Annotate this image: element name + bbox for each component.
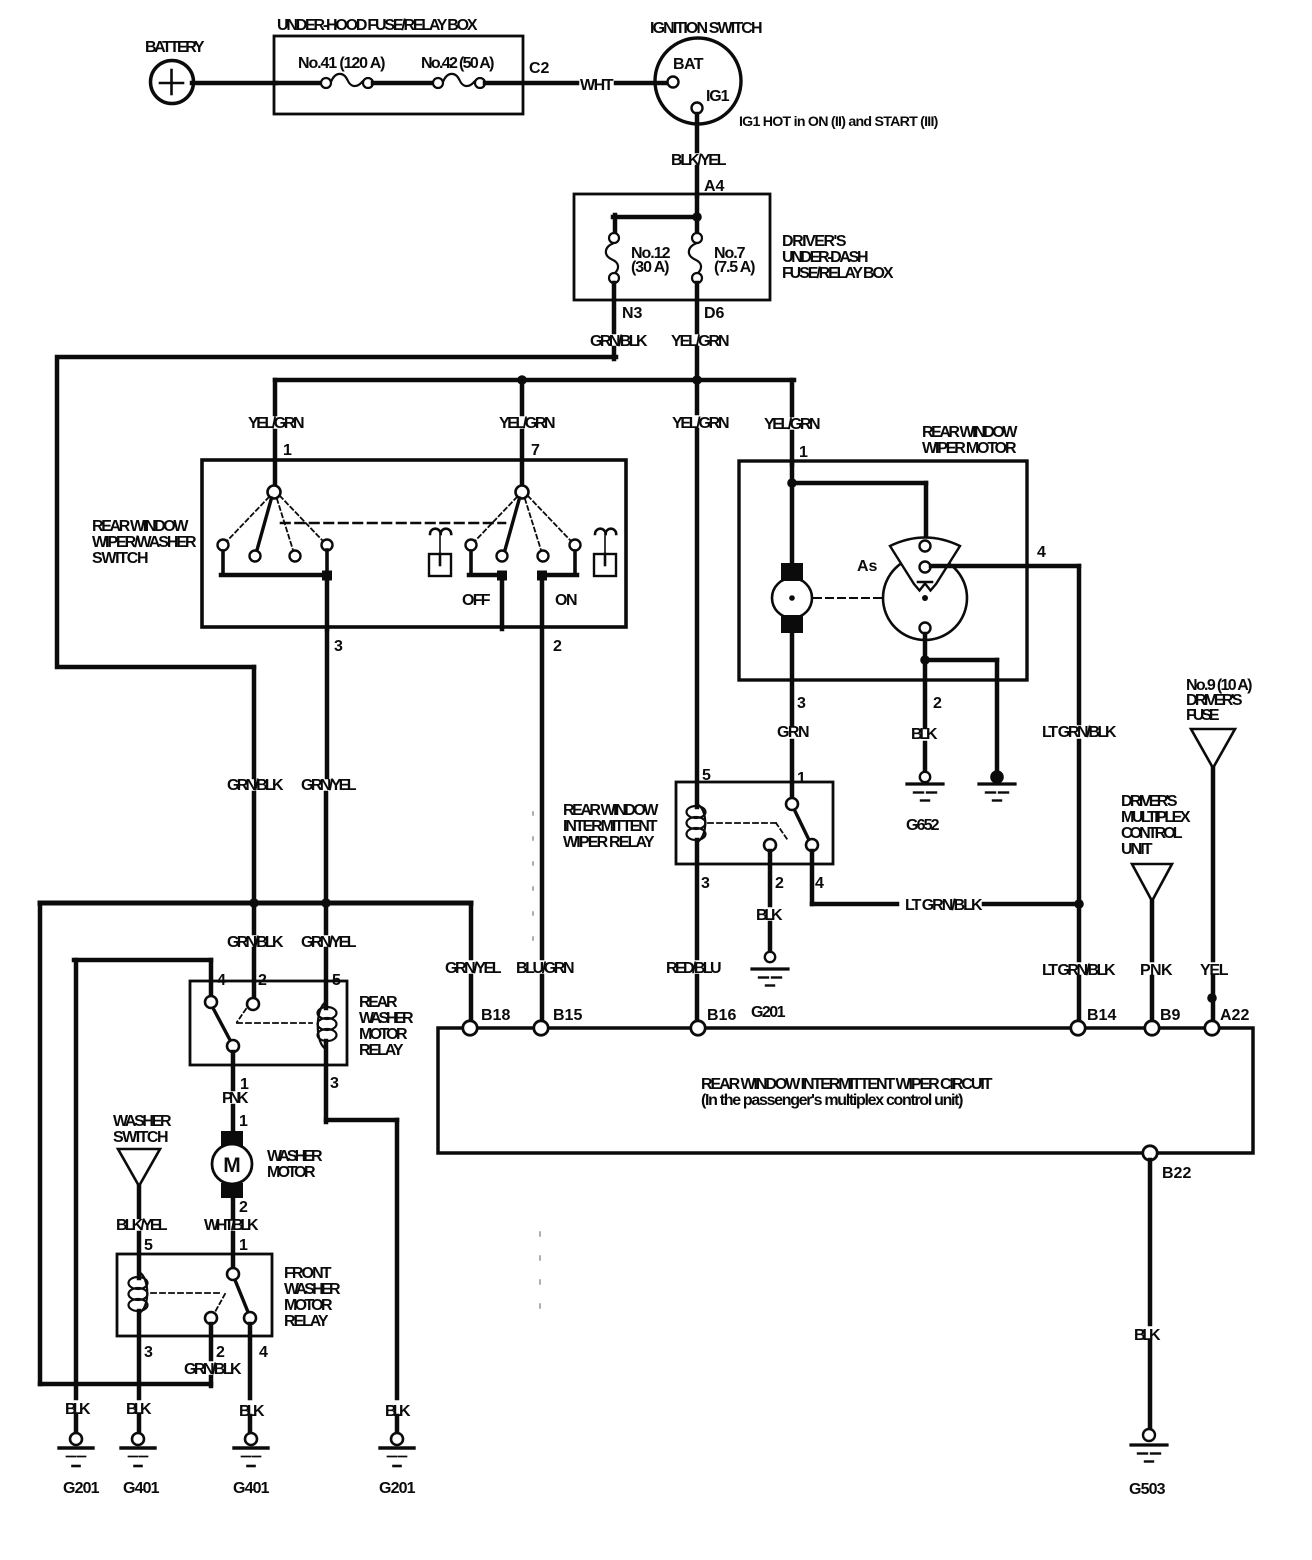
rear window wiper motor box [739, 461, 1027, 680]
ground G652 [907, 772, 943, 801]
rear window intermittent wiper circuit box [438, 1028, 1253, 1153]
svg-text:No.42 (50 A): No.42 (50 A) [421, 55, 494, 72]
svg-text:IGNITION SWITCH: IGNITION SWITCH [650, 20, 762, 37]
svg-text:4: 4 [815, 875, 824, 892]
mechanical link dashed [281, 522, 505, 525]
relay pin 2 to ground [768, 851, 773, 905]
svg-text:WIPER RELAY: WIPER RELAY [563, 834, 655, 851]
pin 4 loop up-left then down to G201 [209, 960, 214, 998]
svg-text:BLU/GRN: BLU/GRN [516, 960, 574, 977]
svg-text:BLK/YEL: BLK/YEL [671, 152, 727, 169]
svg-text:B9: B9 [1160, 1007, 1181, 1024]
svg-text:SWITCH: SWITCH [92, 550, 148, 567]
svg-text:1: 1 [239, 1237, 248, 1254]
fuse No.7 (7.5 A) [689, 233, 702, 283]
svg-text:MOTOR: MOTOR [267, 1164, 316, 1181]
wire between fuses [373, 81, 433, 86]
left contacts [218, 540, 229, 551]
svg-text:G401: G401 [123, 1480, 160, 1497]
svg-text:YEL/GRN: YEL/GRN [248, 415, 304, 432]
svg-text:2: 2 [239, 1199, 248, 1216]
right common contact [516, 486, 529, 499]
svg-text:2: 2 [216, 1344, 225, 1361]
svg-text:YEL/GRN: YEL/GRN [764, 416, 820, 433]
ON wire down to B15 [540, 575, 545, 958]
svg-text:As: As [857, 558, 878, 575]
battery [151, 61, 194, 104]
svg-text:REAR WINDOW: REAR WINDOW [92, 518, 189, 535]
wire into fuse No.41 [276, 81, 321, 86]
left switch arm [257, 498, 272, 550]
svg-text:UNDER-HOOD FUSE/RELAY BOX: UNDER-HOOD FUSE/RELAY BOX [277, 17, 478, 34]
internal feed from pin 1 [790, 464, 795, 564]
svg-text:(In the passenger's multiplex: (In the passenger's multiplex control un… [701, 1092, 963, 1109]
ignition switch circle [655, 38, 741, 124]
svg-text:7: 7 [531, 442, 540, 459]
svg-text:PNK: PNK [222, 1090, 249, 1107]
relay contact pin1 [786, 798, 798, 810]
svg-text:GRN/BLK: GRN/BLK [227, 777, 284, 794]
svg-text:4: 4 [259, 1344, 268, 1361]
svg-text:B18: B18 [481, 1007, 510, 1024]
svg-text:4: 4 [217, 972, 226, 989]
svg-text:FUSE: FUSE [1186, 707, 1220, 724]
svg-text:GRN/BLK: GRN/BLK [227, 934, 284, 951]
svg-text:FUSE/RELAY BOX: FUSE/RELAY BOX [782, 265, 894, 282]
svg-text:4: 4 [1037, 544, 1046, 561]
pin 4 wire out right [931, 564, 1079, 569]
svg-text:A4: A4 [704, 178, 725, 195]
svg-text:BAT: BAT [673, 56, 704, 73]
pin 3 out to right ground [324, 1041, 329, 1122]
horizontal bus y=903 [40, 901, 471, 906]
scan fold artifacts [532, 812, 534, 950]
svg-text:WIPER/WASHER: WIPER/WASHER [92, 534, 197, 551]
fuse No.42 (50 A) [433, 74, 485, 88]
svg-text:RELAY: RELAY [284, 1313, 329, 1330]
ON leg [573, 551, 577, 575]
svg-text:WASHER: WASHER [284, 1281, 341, 1298]
GRN/BLK run: N3 left then down left side [57, 357, 616, 667]
branch to fuse No.12 [613, 215, 697, 220]
svg-text:REAR WINDOW: REAR WINDOW [922, 424, 1018, 441]
svg-text:3: 3 [144, 1344, 153, 1361]
svg-text:D6: D6 [704, 305, 725, 322]
svg-text:A22: A22 [1220, 1007, 1249, 1024]
svg-text:BLK: BLK [385, 1403, 411, 1420]
under-hood fuse/relay box [274, 36, 523, 114]
svg-text:GRN/YEL: GRN/YEL [445, 960, 502, 977]
relay pin 4 wire to LT GRN/BLK [810, 851, 815, 904]
svg-text:1: 1 [797, 770, 806, 787]
dashed throws right [475, 497, 517, 541]
svg-text:MOTOR: MOTOR [359, 1026, 408, 1043]
svg-text:N3: N3 [622, 305, 643, 322]
svg-text:M: M [223, 1154, 241, 1177]
svg-text:5: 5 [702, 767, 711, 784]
svg-text:REAR WINDOW INTERMITTENT WIPER: REAR WINDOW INTERMITTENT WIPER CIRCUIT [701, 1076, 993, 1093]
svg-text:ON: ON [555, 592, 577, 609]
wire D6 out of box [695, 283, 700, 332]
svg-text:WHT: WHT [580, 77, 614, 94]
junction on YEL/GRN line at pin 7 drop [517, 375, 527, 385]
svg-text:UNDER-DASH: UNDER-DASH [782, 249, 868, 266]
coil [318, 1002, 337, 1049]
wire C2 to ignition, WHT label gap [485, 81, 577, 86]
svg-text:3: 3 [797, 695, 806, 712]
svg-text:INTERMITTENT: INTERMITTENT [563, 818, 658, 835]
lamp symbol left [429, 529, 451, 576]
dashed throws left [227, 497, 269, 541]
svg-text:5: 5 [144, 1237, 153, 1254]
wire IG1 down, BLK/YEL gap [695, 114, 700, 151]
svg-text:WIPER MOTOR: WIPER MOTOR [922, 440, 1017, 457]
svg-text:CONTROL: CONTROL [1121, 825, 1183, 842]
svg-text:DRIVER'S: DRIVER'S [1121, 793, 1178, 810]
rear window wiper/washer switch box [202, 460, 626, 627]
left leg down to front relay pin 2 [38, 903, 43, 1384]
svg-text:PNK: PNK [1140, 962, 1173, 979]
svg-text:FRONT: FRONT [284, 1265, 332, 1282]
pin 1 down to washer motor [231, 1052, 236, 1089]
drop to intermittent relay pin 5 [695, 382, 700, 413]
drop to wiper motor pin 1 [790, 380, 795, 415]
svg-text:SWITCH: SWITCH [113, 1129, 168, 1146]
svg-text:1: 1 [799, 444, 808, 461]
svg-text:3: 3 [330, 1075, 339, 1092]
svg-text:OFF: OFF [462, 592, 491, 609]
wire GRN/YEL switch pin 3 down to relay pin 5 [325, 629, 330, 777]
fuse No.12 (30 A) [606, 233, 619, 283]
front relay pin 3 to ground [137, 1311, 142, 1398]
IG1 terminal [692, 103, 703, 114]
rear washer motor relay box [190, 981, 347, 1065]
wire to front relay pin 1 [231, 1198, 236, 1217]
svg-text:GRN/BLK: GRN/BLK [590, 333, 648, 350]
svg-text:G201: G201 [63, 1480, 100, 1497]
rear window intermittent wiper relay box [676, 782, 833, 864]
wire battery to under-hood box [192, 81, 276, 86]
svg-text:LT GRN/BLK: LT GRN/BLK [905, 897, 983, 914]
svg-text:B22: B22 [1162, 1165, 1191, 1182]
motor armature [772, 578, 812, 618]
svg-text:UNIT: UNIT [1121, 841, 1153, 858]
svg-text:YEL: YEL [1200, 962, 1229, 979]
fuse No.41 (120 A) [321, 74, 373, 88]
svg-text:RED/BLU: RED/BLU [666, 960, 721, 977]
front relay pin 2 to GRN/BLK bus [209, 1324, 214, 1359]
svg-text:2: 2 [933, 695, 942, 712]
svg-text:BLK/YEL: BLK/YEL [116, 1217, 168, 1234]
dashed shaft link [814, 597, 881, 599]
svg-text:WHT/BLK: WHT/BLK [204, 1217, 259, 1234]
front relay pin 4 to ground [248, 1324, 253, 1398]
svg-text:G652: G652 [906, 817, 940, 834]
BAT terminal [668, 77, 679, 88]
svg-text:LT GRN/BLK: LT GRN/BLK [1042, 962, 1116, 979]
sensor wedge [890, 538, 960, 591]
svg-text:REAR WINDOW: REAR WINDOW [563, 802, 659, 819]
svg-text:BLK: BLK [756, 907, 783, 924]
GRN/BLK vertical to rear washer relay pin 2 [252, 667, 257, 777]
svg-text:B14: B14 [1087, 1007, 1116, 1024]
svg-text:3: 3 [701, 875, 710, 892]
svg-text:G503: G503 [1129, 1481, 1166, 1498]
svg-text:WASHER: WASHER [267, 1148, 323, 1165]
front washer motor relay box [117, 1254, 272, 1336]
svg-text:GRN/YEL: GRN/YEL [301, 777, 357, 794]
junction GRN/BLK at bus [249, 898, 259, 908]
lamp symbol right [594, 529, 616, 576]
svg-text:IG1 HOT in ON (II) and START (: IG1 HOT in ON (II) and START (III) [739, 114, 939, 130]
svg-text:(30 A): (30 A) [631, 259, 669, 276]
svg-text:BLK: BLK [1134, 1327, 1161, 1344]
svg-text:1: 1 [283, 442, 292, 459]
svg-text:2: 2 [258, 972, 267, 989]
right contacts [466, 540, 477, 551]
svg-text:1: 1 [239, 1113, 248, 1130]
svg-text:WASHER: WASHER [113, 1113, 172, 1130]
junction GRN/YEL at bus [321, 898, 331, 908]
driver's under-dash fuse/relay box [574, 194, 770, 300]
junction on YEL/GRN line at D6 drop [692, 375, 702, 385]
svg-text:GRN/BLK: GRN/BLK [184, 1361, 242, 1378]
wire A4 into box down to fuse No.7 [695, 196, 700, 233]
svg-text:BATTERY: BATTERY [145, 39, 205, 56]
svg-text:BLK: BLK [239, 1403, 265, 1420]
svg-text:REAR: REAR [359, 994, 398, 1011]
svg-text:LT GRN/BLK: LT GRN/BLK [1042, 724, 1117, 741]
svg-text:2: 2 [775, 875, 784, 892]
svg-text:RELAY: RELAY [359, 1042, 404, 1059]
svg-text:BLK: BLK [65, 1401, 91, 1418]
B22 wire down to G503 [1148, 1160, 1153, 1324]
svg-text:B16: B16 [707, 1007, 736, 1024]
svg-text:GRN/YEL: GRN/YEL [301, 934, 357, 951]
drop to switch pin 7 [520, 380, 525, 414]
svg-text:3: 3 [334, 638, 343, 655]
right switch arm [505, 498, 520, 550]
svg-text:YEL/GRN: YEL/GRN [672, 415, 729, 432]
svg-text:G401: G401 [233, 1480, 270, 1497]
svg-text:G201: G201 [751, 1004, 786, 1021]
svg-text:2: 2 [553, 638, 562, 655]
svg-text:YEL/GRN: YEL/GRN [499, 415, 555, 432]
left common contact [268, 486, 281, 499]
svg-text:WASHER: WASHER [359, 1010, 414, 1027]
svg-text:DRIVER'S: DRIVER'S [782, 233, 847, 250]
svg-text:IG1: IG1 [706, 88, 730, 105]
svg-text:GRN: GRN [777, 724, 809, 741]
svg-text:B15: B15 [553, 1007, 582, 1024]
svg-text:C2: C2 [529, 60, 550, 77]
pin 2 wires to grounds [923, 634, 928, 727]
svg-text:BLK: BLK [126, 1401, 152, 1418]
case ground (solid) [979, 771, 1015, 800]
position sensor plate [883, 556, 967, 640]
junction A4 [692, 212, 702, 222]
svg-text:YEL/GRN: YEL/GRN [671, 333, 729, 350]
wire N3 out of box [612, 283, 617, 332]
right leg down to B18 [469, 903, 474, 958]
svg-text:MULTIPLEX: MULTIPLEX [1121, 809, 1191, 826]
svg-text:G201: G201 [379, 1480, 416, 1497]
svg-text:No.41 (120 A): No.41 (120 A) [298, 55, 385, 72]
coil [687, 804, 706, 842]
pin 3 wire down to relay pin 1 [790, 633, 795, 724]
svg-text:BLK: BLK [911, 726, 938, 743]
OFF leg [469, 551, 473, 575]
svg-text:MOTOR: MOTOR [284, 1297, 333, 1314]
YEL/GRN distribution line [275, 378, 794, 383]
svg-text:5: 5 [332, 972, 341, 989]
left L wire to pin 3 [221, 551, 225, 575]
svg-text:(7.5 A): (7.5 A) [714, 259, 755, 276]
drop to switch pin 1 [273, 380, 278, 414]
